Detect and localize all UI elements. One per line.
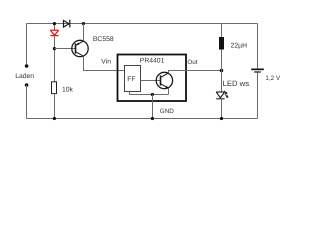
wire red LED to base junction to resistor [54,36,56,82]
wire internal emitter down [168,88,170,94]
node internal ground junction [151,93,154,96]
node top junction red LED branch [53,22,56,25]
wire bottom rail [27,118,258,120]
battery BT1 1.2V [251,69,264,73]
node bottom junction GND [151,117,154,120]
resistor R 10k [52,82,57,94]
node bottom junction resistor [53,117,56,120]
svg-text:Laden: Laden [15,73,34,80]
node top junction transistor branch [82,22,85,25]
node Laden terminal top [25,64,29,68]
wire top rail [27,23,258,25]
transistor internal NPN [156,72,172,88]
svg-text:GND: GND [160,108,174,115]
wire GND drop to bottom rail [152,95,154,119]
svg-text:BC558: BC558 [93,36,114,43]
block FF flip-flop [125,66,141,92]
svg-text:LED ws: LED ws [223,79,250,88]
wire left vertical lower [26,85,28,119]
node Out junction [220,69,224,73]
LED ws white [216,92,224,99]
wire inductor top [221,24,223,38]
wire LED to bottom rail [221,99,223,119]
wire battery bottom [257,73,259,119]
wire resistor to bottom rail [54,94,56,119]
inductor L1 22uH [219,37,224,50]
LED red charge indicator [50,30,58,35]
wire Out [187,70,222,72]
IC U1 PR4401 package box [118,55,187,102]
wire internal collector to Out pin [169,71,187,74]
wire left vertical upper [26,24,28,65]
svg-text:22µH: 22µH [231,42,247,49]
svg-text:1,2 V: 1,2 V [265,75,281,82]
wire inductor to Out junction [221,50,223,71]
svg-text:FF: FF [127,76,135,83]
wire FF bottom drop [130,92,169,95]
wire emitter up [83,24,85,42]
wire FF to internal base [141,80,161,82]
svg-text:Vin: Vin [101,59,111,66]
node base junction [53,47,56,50]
node Laden terminal bottom [25,83,29,87]
wire battery top [257,24,259,69]
transistor Q1 BC558 [72,40,88,56]
wire Out junction down to LED [221,71,223,93]
svg-text:Out: Out [187,59,197,66]
node bottom junction LED [220,117,223,120]
wire base line [55,48,76,50]
wire collector down and right to Vin [84,56,125,70]
diode D series [64,20,70,28]
svg-text:PR4401: PR4401 [140,57,165,64]
svg-text:10k: 10k [62,86,74,93]
LED ws light arrows [224,91,228,98]
wire red LED branch top [54,24,56,31]
